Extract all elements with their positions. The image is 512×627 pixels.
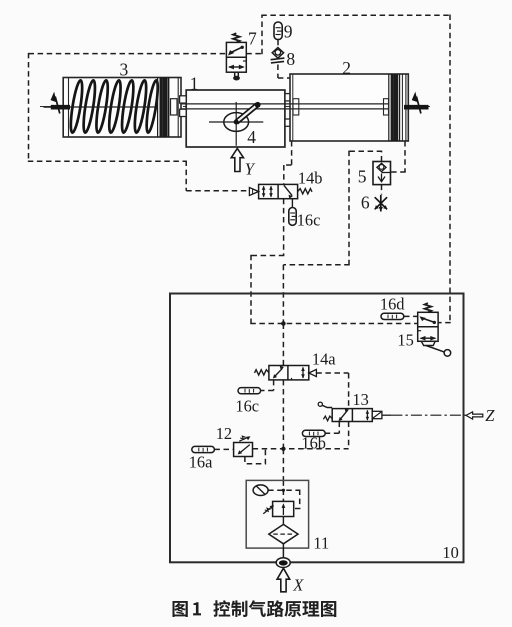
wire: drop at x=349 xyxy=(348,151,350,265)
wire: check valve 8 down xyxy=(277,65,279,79)
bottom box path with arrows xyxy=(229,66,243,68)
force arrow right xyxy=(416,97,421,114)
svg-text:X: X xyxy=(292,575,304,594)
wire: left pilot loop bottom xyxy=(28,160,186,162)
spring right of 14b xyxy=(298,189,312,194)
wire: into valve 15 right port xyxy=(438,322,451,324)
rod boss right of cyl3 piston xyxy=(171,99,178,115)
wire: supply run to valve 15 left port xyxy=(250,323,417,325)
svg-text:2: 2 xyxy=(342,58,351,78)
svg-text:9: 9 xyxy=(284,21,293,41)
coupling block 1 xyxy=(186,90,285,147)
force arrow left xyxy=(55,97,60,114)
cam circle 4 crosshair xyxy=(209,102,263,146)
roller + spring left of 13 xyxy=(318,402,322,406)
svg-text:16b: 16b xyxy=(301,434,326,453)
spring left of 14a xyxy=(254,370,268,375)
wire: valve 12 bypass loop xyxy=(245,449,266,464)
wire: muffler 9 to check valve 8 xyxy=(277,40,279,46)
svg-text:Y: Y xyxy=(245,159,256,178)
X arrow xyxy=(277,568,290,592)
svg-text:13: 13 xyxy=(352,390,368,409)
wire: 14a pilot line right xyxy=(316,372,348,374)
rod boss left inside cyl2 xyxy=(293,99,299,115)
cam circle 4 xyxy=(224,113,249,132)
lever arm xyxy=(236,105,257,123)
svg-text:6: 6 xyxy=(361,193,370,213)
wire: left to main riser xyxy=(283,264,349,266)
junction dot at lower run xyxy=(281,447,285,451)
wire: to muffler 16b xyxy=(325,432,339,434)
wire: 13 supply drop xyxy=(348,422,350,449)
rod end right of cylinder 2 xyxy=(404,105,429,110)
link regulator to filter xyxy=(282,517,284,525)
rod end left of cylinder 3 xyxy=(44,106,52,108)
caption 图1 控制气路原理图 xyxy=(173,600,337,617)
svg-text:5: 5 xyxy=(358,167,367,187)
right box: diagonal to exhaust xyxy=(284,185,292,195)
wire: left pilot loop top (to valve 7 left port) xyxy=(29,53,227,55)
piston rod (upper/lower lines) xyxy=(177,104,388,109)
mount tabs between cyl3 and block 1 xyxy=(180,94,292,127)
wire: 14a bottom down to lower junction xyxy=(282,380,284,449)
regulator in unit 11 xyxy=(273,501,294,516)
wire: cyl2 right-bottom port drop xyxy=(404,141,406,172)
svg-text:Z: Z xyxy=(485,406,495,425)
svg-text:4: 4 xyxy=(247,127,256,147)
svg-text:12: 12 xyxy=(216,424,232,443)
wire: left along y=151 xyxy=(349,150,382,152)
rod stub plate at piston xyxy=(384,99,389,115)
svg-text:16c: 16c xyxy=(235,396,259,415)
drop to X port xyxy=(282,544,284,558)
wire: 14b bottom port down xyxy=(283,199,285,256)
svg-text:11: 11 xyxy=(313,533,329,552)
wire: top pilot run xyxy=(261,14,450,16)
svg-text:15: 15 xyxy=(397,330,413,349)
spring above valve 7 xyxy=(233,33,240,42)
wire: riser right of valve 7 xyxy=(261,15,263,54)
wire: jog left xyxy=(284,164,292,166)
piston of cylinder 2 xyxy=(389,74,406,141)
cylinder 3 body xyxy=(63,78,181,138)
wire: to 14b pilot triangle xyxy=(186,190,249,192)
wire: muffler 16d to valve 15 xyxy=(404,315,418,317)
svg-text:1: 1 xyxy=(190,74,199,94)
svg-text:8: 8 xyxy=(286,49,295,69)
wire: jog left toward x=251 xyxy=(251,255,284,257)
spring in cylinder 3 xyxy=(69,80,160,134)
junction dot at supply run xyxy=(281,321,286,326)
wire: muffler 16a to valve 12 xyxy=(214,448,233,450)
wire: 13 exhaust stub down xyxy=(338,422,340,434)
centerline through rod xyxy=(40,106,430,108)
wire: valve 7 right port to riser xyxy=(246,53,262,55)
pilot box right of 13 xyxy=(372,411,382,418)
wire: unit 11 feedback corner xyxy=(294,490,300,509)
wire: down to valve 13 top port xyxy=(348,373,350,409)
wire: lower junction run 12 to 13 xyxy=(253,448,349,450)
svg-text:14a: 14a xyxy=(312,349,336,368)
rod line through spring xyxy=(70,106,157,108)
svg-text:16a: 16a xyxy=(189,452,213,471)
svg-text:7: 7 xyxy=(248,28,257,48)
rod lines within cylinder 2 xyxy=(290,104,388,109)
wire: cyl2 bottom-left port down xyxy=(291,141,293,165)
svg-text:3: 3 xyxy=(120,60,129,80)
wire: to valve 5 right port xyxy=(391,171,406,173)
roller lever of valve 15 xyxy=(421,341,435,345)
Z arrow xyxy=(466,412,483,419)
wire: unit 11 top to regulator xyxy=(282,480,284,501)
junction tick at gauge line xyxy=(282,489,285,492)
wire: drop into box 10 to junction xyxy=(250,255,252,324)
wire: lower junction down to unit 11 xyxy=(282,449,284,481)
flow diagonal in top box xyxy=(229,47,242,53)
wire: left pilot loop vertical xyxy=(28,53,30,161)
wire: valve 5 bottom to plug 6 xyxy=(381,185,383,195)
wire: valve 5 top port riser xyxy=(381,151,383,161)
left box: through flow arrows xyxy=(263,186,265,197)
piston of cylinder 3 xyxy=(158,78,169,138)
wire: 14a exhaust stub down xyxy=(273,380,275,391)
wire: to muffler 16c lower xyxy=(260,390,273,392)
wire: junction down to 14a top port xyxy=(282,324,284,366)
cylinder 2 body xyxy=(290,74,408,141)
wire: main supply riser into box 10 down to junction xyxy=(282,265,284,324)
wire: valve 8 to cylinder 2 left port xyxy=(278,77,290,79)
wire: right pilot drop to valve 15 xyxy=(449,15,451,323)
svg-text:16d: 16d xyxy=(380,295,405,314)
wire: down to 14b top port xyxy=(283,165,285,184)
gauge xyxy=(253,485,268,496)
svg-text:10: 10 xyxy=(442,543,458,562)
pilot triangle right of 14a xyxy=(309,369,317,376)
svg-text:14b: 14b xyxy=(298,169,323,188)
rod lines within block xyxy=(186,104,285,109)
pilot triangle 14b xyxy=(249,188,258,196)
drain legs below valve 7 xyxy=(235,72,239,76)
filter xyxy=(269,524,298,543)
spring above valve 15 xyxy=(425,303,432,312)
svg-text:16c: 16c xyxy=(297,210,321,229)
wire: gauge line in unit 11 xyxy=(268,489,300,491)
wire: drop to 14b pilot xyxy=(185,161,187,191)
